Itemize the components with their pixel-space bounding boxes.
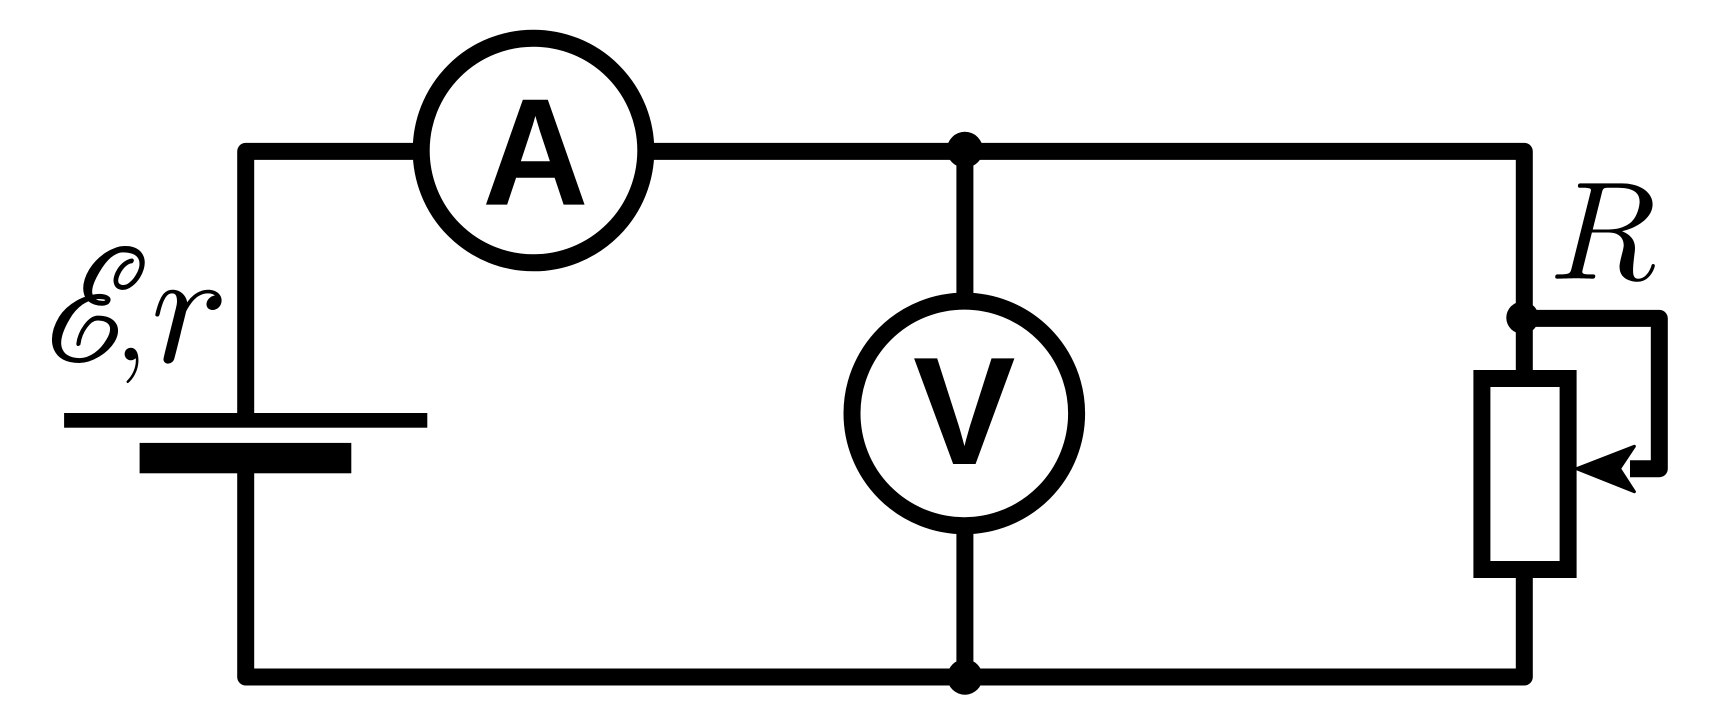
wire: voltmeter bottom lead [956, 518, 973, 677]
label: r (internal resistance) of battery [155, 290, 221, 364]
battery cell E,r : short thick negative plate [140, 443, 352, 473]
battery cell E,r : long thin positive plate [64, 413, 427, 428]
wire: main circuit loop (left vertical, top, right vertical, bottom) [246, 151, 1525, 677]
node: wiper tap junction [1506, 302, 1538, 334]
ammeter letter A [486, 100, 585, 205]
label: comma after script E [125, 348, 139, 383]
node: bottom junction (voltmeter tap) [947, 659, 982, 694]
wire: rheostat wiper arm [1523, 318, 1660, 468]
label: script E (EMF) of battery [52, 247, 144, 363]
resistor R (rheostat body) [1482, 379, 1568, 570]
voltmeter U=V : circle body [852, 301, 1077, 526]
node: top junction (voltmeter tap) [947, 132, 983, 168]
ammeter U=A : circle body [421, 38, 646, 263]
rheostat wiper arrowhead [1577, 446, 1635, 491]
wire: voltmeter top lead [956, 151, 973, 310]
voltmeter letter V [914, 358, 1014, 464]
label: R of rheostat [1555, 183, 1655, 281]
